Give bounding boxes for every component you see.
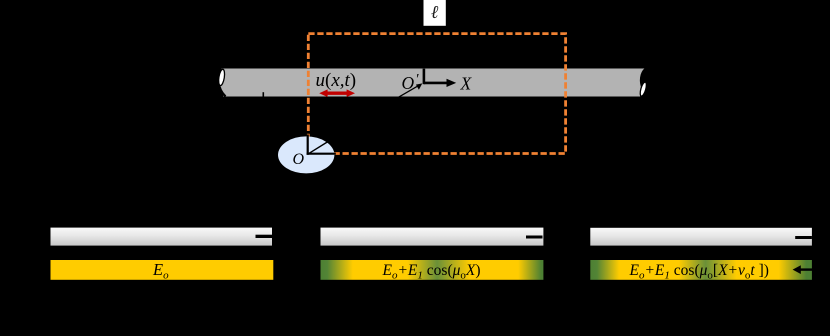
- ellipse O: [278, 136, 334, 173]
- bar2 black dash: [526, 236, 543, 239]
- label box ell: [424, 0, 446, 26]
- tick on rod bottom: [262, 92, 264, 97]
- rod right end cap: [622, 69, 648, 97]
- bar3 grey: [590, 228, 812, 246]
- O frame diagonal line: [308, 141, 330, 155]
- bar3 left black arrow: [793, 265, 812, 274]
- bar2 gradient: [321, 260, 544, 280]
- bar1 black dash: [256, 235, 273, 238]
- svg-text:O: O: [293, 151, 305, 168]
- bar1 grey: [51, 228, 273, 246]
- O-prime axis vertical: [423, 69, 426, 85]
- svg-text:u(x,t): u(x,t): [316, 70, 357, 91]
- dashed region rectangle: [308, 34, 565, 154]
- bar1 yellow: [51, 260, 274, 280]
- svg-text:O: O: [402, 73, 415, 93]
- O frame vertical line: [307, 135, 309, 155]
- rod left end cap: [218, 69, 233, 97]
- leader arrow to O-prime origin: [393, 83, 423, 100]
- svg-text:X: X: [460, 74, 473, 94]
- svg-text:ℓ: ℓ: [431, 2, 439, 22]
- red double arrow: [319, 89, 355, 97]
- bar3 gradient: [590, 260, 812, 280]
- O frame horizontal line: [307, 153, 336, 155]
- X axis arrow: [424, 79, 456, 87]
- bar2 grey: [321, 228, 544, 246]
- rod body: [223, 69, 641, 97]
- bar3 black dash: [795, 236, 812, 239]
